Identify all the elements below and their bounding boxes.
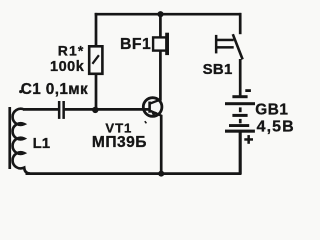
node junction emitter bottom [158, 171, 164, 177]
emitter arrow (PNP) [150, 110, 157, 116]
actuator prong upper [216, 39, 234, 42]
plus sign [244, 138, 253, 141]
wire BF1 top branch [159, 13, 162, 38]
actuator prong lower [216, 46, 234, 49]
capacitor C1 [58, 101, 65, 119]
emitter line [150, 111, 161, 116]
wire main middle horizontal (coil to C1) [23, 108, 59, 111]
transistor VT1 [143, 98, 162, 124]
dash between cells 1 [239, 107, 242, 112]
wire R1 top branch [95, 13, 98, 47]
node junction R1 bottom [92, 107, 98, 113]
dash between cells 2 [239, 119, 242, 123]
cell long plate 1 [225, 102, 255, 105]
actuator bar [215, 35, 218, 54]
base bar [148, 102, 151, 113]
wire R1 bottom branch [95, 74, 98, 111]
wire bottom horizontal [26, 172, 242, 175]
svg-text:SB1: SB1 [203, 61, 233, 78]
headphone BF1 [153, 33, 169, 55]
stray ink dot [19, 90, 22, 93]
svg-text:МП39Б: МП39Б [92, 134, 147, 151]
svg-text:100k: 100k [50, 59, 85, 75]
inductor L1 [13, 109, 30, 174]
pushbutton SB1 [215, 34, 243, 59]
resistor R1 [89, 46, 102, 74]
cell short plate 3 [229, 124, 249, 127]
blade [233, 34, 243, 59]
svg-text:R1*: R1* [58, 43, 85, 59]
svg-text:L1: L1 [33, 135, 51, 152]
wire top horizontal [95, 13, 242, 16]
minus sign [245, 89, 251, 92]
wire battery to bottom [239, 132, 242, 174]
wire C1 to transistor base [65, 108, 150, 111]
wire switch top terminal [239, 13, 242, 34]
inductor core line [8, 107, 11, 169]
wire emitter down [160, 115, 163, 174]
wire switch bottom to battery [239, 59, 242, 96]
stray tick [145, 121, 147, 123]
svg-text:BF1: BF1 [120, 36, 151, 53]
svg-text:С1 0,1мк: С1 0,1мк [21, 81, 88, 98]
node junction top (BF1 tap) [157, 11, 163, 17]
battery GB1 [225, 89, 255, 144]
cell short plate 1 [232, 95, 247, 98]
svg-text:GB1: GB1 [255, 102, 288, 119]
cell long plate 3 [225, 130, 255, 133]
wire BF1 to collector [159, 50, 162, 100]
svg-text:4,5В: 4,5В [257, 119, 295, 136]
cell short plate 2 [232, 114, 247, 117]
collector line [150, 99, 161, 103]
